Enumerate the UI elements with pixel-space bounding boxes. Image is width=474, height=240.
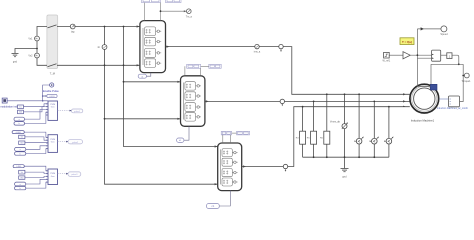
svg-text:W_ref1: W_ref1: [383, 59, 391, 62]
svg-text:Vmes_ab: Vmes_ab: [330, 121, 341, 124]
svg-text:340: 340: [19, 112, 22, 114]
svg-text:ims_a: ims_a: [254, 50, 261, 53]
svg-text:PWM: PWM: [50, 104, 55, 106]
svg-text:T_M: T_M: [50, 72, 55, 76]
svg-text:340: 340: [20, 142, 23, 144]
svg-text:pulse3: pulse3: [71, 174, 78, 176]
svg-text:gnd: gnd: [13, 61, 18, 64]
svg-text:Vs1: Vs1: [28, 38, 33, 41]
svg-text:PWM: PWM: [50, 173, 55, 175]
svg-text:Induction Machine1_ac_rotorb: Induction Machine1_ac_rotorb: [437, 107, 469, 110]
svg-text:1/z: 1/z: [21, 137, 24, 139]
svg-text:Tm_a: Tm_a: [186, 16, 193, 19]
svg-text:Gen: Gen: [51, 142, 55, 144]
svg-text:Torque1: Torque1: [461, 80, 471, 83]
svg-text:b: b: [20, 188, 21, 190]
svg-text:T = f(u): T = f(u): [402, 40, 412, 44]
svg-text:b: b: [20, 153, 21, 155]
svg-text:pulse2: pulse2: [72, 142, 79, 144]
svg-text:Gen: Gen: [51, 107, 55, 109]
svg-text:0.866: 0.866: [16, 166, 22, 168]
svg-text:Vs2: Vs2: [28, 55, 33, 58]
svg-text:gnd: gnd: [342, 176, 347, 179]
svg-text:380: 380: [20, 177, 23, 179]
svg-text:Speed: Speed: [440, 33, 448, 36]
svg-text:b: b: [19, 123, 20, 125]
svg-text:Gen: Gen: [51, 176, 55, 178]
svg-text:1/z: 1/z: [21, 172, 24, 174]
svg-text:1/z: 1/z: [19, 106, 22, 108]
svg-text:pulse1: pulse1: [74, 111, 81, 113]
svg-text:Induction Machine1: Induction Machine1: [411, 118, 435, 122]
svg-text:PWM: PWM: [50, 139, 55, 141]
svg-text:Enable Pulse: Enable Pulse: [43, 89, 59, 93]
svg-text:0.866: 0.866: [16, 132, 22, 134]
svg-text:0.693: 0.693: [49, 96, 55, 98]
